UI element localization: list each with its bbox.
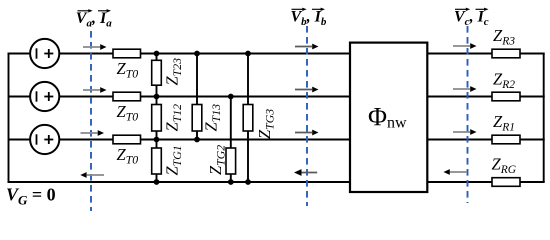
resistor ZTG2 (phase b to ground, crossing phase c) bbox=[226, 97, 236, 183]
current arrow Ia phase c (left section) bbox=[81, 130, 105, 136]
node ground / ZTG2 bbox=[228, 179, 234, 185]
wire: phase c from ZT0 to network box bbox=[141, 139, 351, 141]
wire: phase b from box to ZR2 bbox=[427, 96, 492, 98]
wire: ground from box to ZRG bbox=[427, 181, 492, 183]
measurement line Vb Ib (dashed) bbox=[306, 26, 308, 206]
wire: phase a from ZR3 to right bus bbox=[520, 53, 545, 55]
label Va Ia bbox=[76, 9, 112, 29]
resistor ZR1 bbox=[492, 135, 520, 144]
voltage source phase a bbox=[30, 39, 59, 68]
measurement line Va Ia (dashed) bbox=[90, 31, 92, 211]
wire: phase c from box to ZR1 bbox=[427, 139, 492, 141]
node phase a / ZTG3 bbox=[245, 51, 251, 57]
wire: ground net from bus to network box bbox=[8, 181, 351, 183]
current arrow Ia phase b (left section) bbox=[83, 87, 107, 93]
node ground / ZTG3 bbox=[245, 179, 251, 185]
resistor ZT12 (phase b to phase c) bbox=[152, 97, 162, 140]
node ground / ZTG1 bbox=[154, 179, 160, 185]
node phase a / ZT23 bbox=[154, 51, 160, 57]
current arrow ground return (middle section, leftward) bbox=[294, 169, 317, 176]
wire: phase a from ZT0 to network box bbox=[141, 53, 351, 55]
resistor ZT13 (phase a to phase c, crossing phase b) bbox=[192, 54, 202, 140]
current arrow ground return (left section, leftward) bbox=[80, 172, 104, 178]
current arrow ground return (right section, leftward) bbox=[444, 169, 468, 175]
wire: right bus vertical bbox=[543, 54, 545, 183]
wire: phase c from ZR1 to right bus bbox=[520, 139, 545, 141]
current arrow Ib phase a (middle section) bbox=[295, 44, 319, 50]
resistor ZR2 bbox=[492, 92, 520, 101]
node phase c / ZT13 bbox=[194, 137, 200, 143]
wire: phase a stub from bus to source Va bbox=[8, 53, 31, 55]
wire: phase b from source to ZT0 bbox=[59, 96, 113, 98]
current arrow Ic phase a (right section) bbox=[453, 43, 477, 49]
resistor ZRG bbox=[492, 178, 520, 187]
wire: phase b from ZT0 to network box bbox=[141, 96, 351, 98]
resistor ZT0 phase c bbox=[113, 135, 141, 144]
current arrow Ic phase c (right section) bbox=[453, 129, 477, 135]
svg-text:Vc, Ic: Vc, Ic bbox=[454, 9, 489, 29]
svg-text:VG = 0: VG = 0 bbox=[6, 185, 56, 208]
current arrow Ia phase a bbox=[83, 44, 107, 50]
wire: phase a from box to ZR3 bbox=[427, 53, 492, 55]
wire: phase c stub from bus to source Vc bbox=[9, 139, 31, 141]
label Vc Ic bbox=[454, 8, 489, 28]
wire: phase c from source to ZT0 bbox=[59, 139, 113, 141]
resistor ZTG1 (phase c to ground) bbox=[152, 140, 162, 183]
node phase b / ZTG2 bbox=[228, 94, 234, 100]
current arrow Ic phase b (right section) bbox=[453, 86, 477, 92]
resistor ZTG3 (phase a to ground, crossing phases b and c) bbox=[243, 54, 253, 183]
wire: phase b stub from bus to source Vb bbox=[9, 96, 31, 98]
current arrow Ib phase b (middle section) bbox=[295, 87, 319, 93]
resistor ZR3 bbox=[492, 49, 520, 58]
wire: phase b from ZR2 to right bus bbox=[520, 96, 545, 98]
measurement line Vc Ic (dashed) bbox=[467, 26, 469, 203]
current arrow Ib phase c (middle section) bbox=[295, 130, 319, 136]
node phase b / ZT23-ZT12 bbox=[154, 94, 160, 100]
wire: left bus vertical bbox=[8, 54, 10, 183]
resistor ZT0 phase a bbox=[113, 49, 141, 58]
label Vb Ib bbox=[291, 8, 327, 28]
node phase c / ZT12-ZTG1 bbox=[154, 137, 160, 143]
voltage source phase b bbox=[30, 82, 59, 111]
network box Phi_nw bbox=[350, 43, 427, 192]
wire: ground from ZRG to right bus bbox=[520, 181, 545, 183]
node phase a / ZT13 bbox=[194, 51, 200, 57]
resistor ZT23 (phase a to phase b) bbox=[152, 54, 162, 97]
resistor ZT0 phase b bbox=[113, 92, 141, 101]
voltage source phase c bbox=[30, 125, 59, 154]
wire: phase a from source to ZT0 bbox=[59, 53, 113, 55]
